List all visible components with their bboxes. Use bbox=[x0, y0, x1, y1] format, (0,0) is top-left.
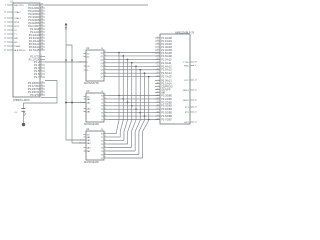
svg-text:7: 7 bbox=[105, 111, 106, 113]
svg-text:2: 2 bbox=[158, 85, 159, 87]
svg-text:XTAL2: XTAL2 bbox=[14, 11, 21, 14]
junction bus5 at U3 row bbox=[139, 112, 141, 114]
junction bus2 at U2 row bbox=[127, 59, 129, 61]
wire bus vertical 2 bbox=[124, 59, 128, 140]
wire bus x66 to U3 pin bbox=[66, 102, 86, 104]
svg-text:22: 22 bbox=[41, 31, 43, 33]
wire net D0 U3 to U5 bbox=[108, 95, 160, 97]
svg-text:13: 13 bbox=[41, 91, 43, 93]
wire net D3 U3 to U5 bbox=[108, 105, 160, 107]
wire U4 pin 5 bracket bbox=[108, 150, 135, 152]
junction bus2 at U3 row bbox=[127, 102, 129, 104]
svg-text:INT0: INT0 bbox=[14, 22, 20, 24]
svg-text:WR: WR bbox=[14, 38, 18, 40]
IC U4 SN74LS244N bbox=[79, 129, 108, 164]
svg-text:9: 9 bbox=[105, 157, 106, 159]
wire bus vertical 5 bbox=[135, 70, 140, 151]
wire net A12 U2 to U5 bbox=[108, 76, 160, 78]
wire net D2 U3 to U5 bbox=[108, 101, 160, 103]
svg-text:9: 9 bbox=[158, 40, 159, 42]
wire U4 pin 4 bracket bbox=[108, 147, 131, 149]
svg-text:8: 8 bbox=[105, 153, 106, 155]
IC U5 HM62256 SRAM bbox=[155, 31, 197, 124]
svg-text:9: 9 bbox=[105, 75, 106, 77]
wire net A5 U2 to U5 bbox=[108, 52, 160, 54]
wire bus vertical 3 bbox=[128, 63, 132, 144]
junction x72 U3 wire bbox=[71, 102, 73, 104]
junction bus0 at U3 row bbox=[118, 95, 120, 97]
svg-text:G: G bbox=[87, 70, 89, 72]
svg-text:9: 9 bbox=[105, 118, 106, 120]
capacitor C6 bbox=[14, 109, 25, 116]
svg-text:10: 10 bbox=[156, 37, 158, 39]
wire net D4 U3 to U5 bbox=[108, 108, 160, 110]
wire net A6 U2 to U5 bbox=[108, 55, 160, 57]
svg-text:39: 39 bbox=[41, 4, 43, 6]
wire U1 P1.2 to U2 C bbox=[45, 61, 86, 63]
svg-text:14: 14 bbox=[195, 80, 197, 82]
svg-text:RST: RST bbox=[184, 122, 189, 124]
svg-text:7: 7 bbox=[158, 46, 159, 48]
svg-text:7: 7 bbox=[105, 68, 106, 70]
svg-text:14: 14 bbox=[41, 94, 43, 96]
svg-text:6: 6 bbox=[158, 49, 159, 51]
IC U1 AT89C51 microcontroller bbox=[4, 1, 45, 102]
power VCC symbol bbox=[65, 23, 68, 30]
svg-text:2: 2 bbox=[105, 94, 106, 96]
svg-text:P2.7/A15: P2.7/A15 bbox=[29, 48, 40, 52]
svg-text:3: 3 bbox=[105, 55, 106, 57]
wire vertical net ALE x66 bbox=[66, 26, 86, 140]
wire net D5 U3 to U5 bbox=[108, 112, 160, 114]
svg-text:21: 21 bbox=[41, 28, 43, 30]
junction bus0 at U2 row bbox=[118, 52, 120, 54]
wire net D6 U3 to U5 bbox=[108, 115, 160, 117]
svg-text:3: 3 bbox=[195, 65, 196, 67]
svg-text:12: 12 bbox=[41, 88, 43, 90]
svg-text:7: 7 bbox=[41, 73, 42, 75]
svg-text:37: 37 bbox=[41, 10, 43, 12]
svg-text:8: 8 bbox=[41, 76, 42, 78]
svg-text:RD: RD bbox=[14, 42, 18, 44]
wire net AD0 top from U1 P0.0 bbox=[45, 4, 148, 6]
svg-text:5: 5 bbox=[105, 143, 106, 145]
junction bus5 at U2 row bbox=[139, 69, 141, 71]
svg-text:20: 20 bbox=[195, 90, 197, 92]
svg-text:6: 6 bbox=[41, 70, 42, 72]
svg-text:19: 19 bbox=[79, 143, 81, 145]
junction bus6 at U3 row bbox=[144, 115, 146, 117]
svg-text:34: 34 bbox=[41, 19, 43, 21]
svg-text:P3.4/T0: P3.4/T0 bbox=[30, 93, 40, 97]
svg-text:24: 24 bbox=[195, 122, 197, 124]
svg-text:RST/VPD: RST/VPD bbox=[14, 5, 24, 7]
junction bus7 at U3 row bbox=[148, 119, 150, 121]
svg-text:8: 8 bbox=[105, 115, 106, 117]
svg-text:26: 26 bbox=[41, 43, 43, 45]
wire U4 pin 3 bracket bbox=[108, 143, 128, 145]
junction bus1 at U2 row bbox=[122, 55, 124, 57]
svg-text:PSEN: PSEN bbox=[14, 46, 20, 48]
ground bbox=[22, 123, 25, 126]
svg-text:26: 26 bbox=[156, 82, 158, 84]
svg-text:AT89C51-24PC: AT89C51-24PC bbox=[13, 99, 30, 102]
svg-text:INT1: INT1 bbox=[14, 26, 20, 28]
svg-text:20: 20 bbox=[101, 48, 103, 50]
junction bus6 at U2 row bbox=[144, 72, 146, 74]
svg-text:23: 23 bbox=[41, 34, 43, 36]
svg-text:20: 20 bbox=[101, 91, 103, 93]
wire net A9 U2 to U5 bbox=[108, 65, 160, 67]
svg-text:36: 36 bbox=[41, 13, 43, 15]
svg-text:3: 3 bbox=[105, 98, 106, 100]
svg-text:P2.7/A15: P2.7/A15 bbox=[161, 76, 172, 79]
svg-text:10: 10 bbox=[41, 82, 43, 84]
svg-text:6: 6 bbox=[105, 108, 106, 110]
junction x66 U3 wire bbox=[65, 102, 67, 104]
wire net A11 U2 to U5 bbox=[108, 72, 160, 74]
wire XTAL2 stub bbox=[41, 97, 57, 99]
svg-text:4: 4 bbox=[41, 64, 42, 66]
wire net A10 U2 to U5 bbox=[108, 69, 160, 71]
IC U2 SN74LS373N bbox=[79, 48, 108, 85]
wire net D1 U3 to U5 bbox=[108, 98, 160, 100]
svg-text:VCC: VCC bbox=[184, 80, 189, 82]
svg-text:3: 3 bbox=[105, 136, 106, 138]
svg-text:4: 4 bbox=[105, 58, 106, 60]
junction bus4 at U2 row bbox=[135, 66, 137, 68]
svg-text:28: 28 bbox=[41, 49, 43, 51]
svg-text:5: 5 bbox=[105, 104, 106, 106]
svg-text:1: 1 bbox=[80, 102, 81, 104]
svg-text:2: 2 bbox=[105, 51, 106, 53]
svg-text:21: 21 bbox=[195, 112, 197, 114]
svg-text:23: 23 bbox=[195, 107, 197, 109]
svg-text:38: 38 bbox=[41, 7, 43, 9]
svg-text:27: 27 bbox=[156, 91, 158, 93]
junction bus3 at U2 row bbox=[131, 62, 133, 64]
svg-text:2D: 2D bbox=[87, 56, 90, 58]
wire capacitor to ground bbox=[23, 111, 25, 123]
wire XTAL1 loop bbox=[24, 81, 58, 109]
junction bus4 at U3 row bbox=[135, 108, 137, 110]
svg-text:1 TXD: 1 TXD bbox=[183, 62, 190, 64]
svg-text:OC: OC bbox=[87, 66, 91, 68]
wire branch net PSEN x72 bbox=[66, 45, 86, 143]
svg-text:6: 6 bbox=[105, 65, 106, 67]
svg-text:1D: 1D bbox=[87, 53, 90, 55]
junction bus3 at U3 row bbox=[131, 105, 133, 107]
junction arrow x72 on U2 wire bbox=[71, 60, 73, 62]
wire bus vertical 1 bbox=[120, 56, 123, 137]
wire U4 pin 7 bracket bbox=[108, 157, 143, 159]
svg-text:27: 27 bbox=[41, 46, 43, 48]
wire U4 pin 0 bracket bbox=[108, 133, 117, 135]
svg-text:1: 1 bbox=[80, 140, 81, 142]
svg-text:4: 4 bbox=[105, 101, 106, 103]
wire bus vertical 6 bbox=[139, 73, 145, 154]
svg-text:26: 26 bbox=[195, 100, 197, 102]
svg-text:32: 32 bbox=[41, 25, 43, 27]
wire net A7 U2 to U5 bbox=[108, 58, 160, 60]
wire bus vertical 4 bbox=[131, 66, 136, 147]
wire U4 pin 1 bracket bbox=[108, 136, 120, 138]
svg-text:SN74LS244N: SN74LS244N bbox=[84, 161, 99, 164]
svg-text:GND1: GND1 bbox=[183, 90, 190, 92]
svg-text:1: 1 bbox=[158, 79, 159, 81]
wire U4 pin 6 bracket bbox=[108, 154, 139, 156]
svg-text:35: 35 bbox=[41, 16, 43, 18]
svg-text:22: 22 bbox=[156, 88, 158, 90]
svg-text:C6: C6 bbox=[14, 112, 16, 114]
svg-text:7: 7 bbox=[105, 150, 106, 152]
svg-text:5: 5 bbox=[105, 62, 106, 64]
svg-text:SN74LS244N: SN74LS244N bbox=[84, 123, 99, 126]
svg-text:3: 3 bbox=[41, 61, 42, 63]
svg-text:11: 11 bbox=[41, 85, 43, 87]
svg-text:8: 8 bbox=[105, 72, 106, 74]
svg-text:24: 24 bbox=[41, 37, 43, 39]
junction arrow x66 on U2 wire bbox=[65, 60, 67, 62]
svg-text:ALE/PROG: ALE/PROG bbox=[14, 49, 25, 52]
svg-text:11: 11 bbox=[79, 62, 81, 64]
svg-text:28: 28 bbox=[195, 62, 197, 64]
wire net A8 U2 to U5 bbox=[108, 62, 160, 64]
svg-text:4: 4 bbox=[105, 139, 106, 141]
junction bus7 at U2 row bbox=[148, 76, 150, 78]
svg-text:HM62256BLP-70: HM62256BLP-70 bbox=[175, 31, 195, 34]
svg-text:6: 6 bbox=[105, 146, 106, 148]
svg-text:P0.7/DB7: P0.7/DB7 bbox=[161, 118, 172, 121]
svg-text:RXD: RXD bbox=[184, 65, 189, 67]
svg-text:33: 33 bbox=[41, 22, 43, 24]
svg-text:2: 2 bbox=[105, 132, 106, 134]
svg-text:5: 5 bbox=[41, 67, 42, 69]
svg-text:GND2: GND2 bbox=[183, 100, 190, 102]
junction bus1 at U3 row bbox=[122, 98, 124, 100]
svg-text:25: 25 bbox=[41, 40, 43, 42]
wire U4 pin 2 bracket bbox=[108, 140, 124, 142]
svg-text:1: 1 bbox=[41, 55, 42, 57]
svg-text:P1.7: P1.7 bbox=[34, 75, 40, 79]
svg-text:XTAL1: XTAL1 bbox=[14, 17, 21, 20]
IC U3 SN74LS244N bbox=[80, 91, 108, 126]
svg-text:8: 8 bbox=[158, 43, 159, 45]
wire bus vertical 7 bbox=[143, 77, 149, 158]
svg-text:SN74LS373N: SN74LS373N bbox=[84, 82, 99, 85]
wire bus vertical 0 bbox=[117, 53, 120, 134]
svg-text:20: 20 bbox=[101, 129, 103, 131]
wire net D7 U3 to U5 bbox=[108, 119, 160, 121]
